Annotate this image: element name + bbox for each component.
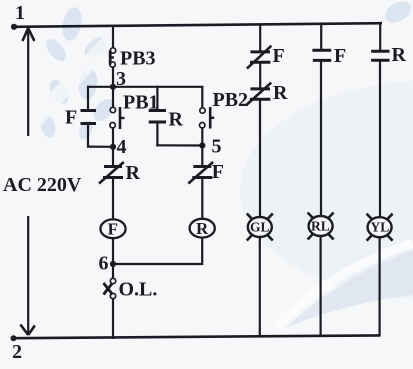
svg-text:PB1: PB1 — [123, 92, 159, 114]
svg-text:1: 1 — [15, 2, 25, 24]
lamp GL — [247, 214, 273, 338]
svg-text:R: R — [126, 162, 141, 184]
contact F (NO) RL branch — [312, 50, 331, 217]
svg-text:4: 4 — [117, 136, 127, 158]
node 3 — [110, 84, 116, 90]
svg-text:R: R — [273, 82, 288, 104]
svg-text:3: 3 — [116, 68, 126, 90]
svg-text:YL: YL — [371, 220, 390, 235]
svg-text:6: 6 — [99, 253, 109, 275]
contact R interlock (NC with slash) — [99, 147, 124, 220]
node 5 — [199, 142, 205, 148]
lamp YL — [367, 214, 393, 337]
svg-text:F: F — [108, 220, 118, 239]
overload O.L. — [104, 264, 116, 339]
contact R (NO) YL branch — [371, 51, 389, 218]
svg-text:PB2: PB2 — [213, 89, 249, 111]
coil R — [190, 219, 215, 265]
wire node6 horizontal — [113, 263, 202, 265]
svg-text:O.L.: O.L. — [119, 279, 158, 301]
arrowhead down — [20, 325, 34, 336]
svg-text:R: R — [169, 109, 184, 131]
svg-text:F: F — [273, 45, 285, 67]
svg-text:5: 5 — [212, 136, 222, 158]
wire node3 horizontal — [87, 86, 203, 88]
contact F interlock (NC with slash) — [188, 146, 213, 220]
arrowhead up — [22, 28, 34, 41]
svg-text:PB3: PB3 — [120, 48, 156, 70]
wire bus to PB3 — [112, 26, 114, 48]
wire R-branch to node5 — [156, 144, 202, 146]
node 4 — [110, 144, 116, 150]
wire bottom bus L2 — [13, 335, 380, 338]
svg-text:F: F — [334, 45, 346, 67]
wire F-branch to node4 — [87, 146, 113, 148]
node 2 — [11, 335, 17, 341]
svg-text:R: R — [196, 219, 209, 238]
pushbutton PB2 (NO) — [200, 86, 215, 147]
node 1 — [11, 24, 17, 30]
contact R holding (NO) — [149, 86, 166, 147]
wire top bus L1 — [13, 23, 382, 27]
wire voltage arrow line lower — [27, 216, 29, 334]
svg-text:GL: GL — [250, 220, 270, 235]
wire PB3 to node 3 — [112, 67, 114, 88]
lamp RL — [308, 213, 334, 337]
svg-text:F: F — [212, 161, 224, 183]
wire bus to GL branch — [259, 24, 261, 52]
wire voltage arrow line upper — [27, 29, 29, 136]
pushbutton PB3 (NC) — [110, 48, 116, 67]
coil F — [100, 219, 125, 264]
node 6 — [110, 261, 116, 267]
contact F holding (NO) — [81, 86, 97, 148]
contact R (NC with slash) GL branch — [246, 83, 271, 218]
svg-text:F: F — [65, 107, 77, 129]
wire bus to RL branch — [320, 24, 322, 51]
pushbutton PB1 (NO) — [110, 86, 125, 148]
contact F (NC with slash) GL branch — [247, 46, 272, 89]
wire bus to YL branch — [379, 23, 381, 51]
svg-text:AC 220V: AC 220V — [3, 174, 82, 196]
svg-text:R: R — [392, 44, 407, 66]
svg-text:RL: RL — [311, 219, 330, 234]
svg-text:2: 2 — [12, 341, 22, 363]
